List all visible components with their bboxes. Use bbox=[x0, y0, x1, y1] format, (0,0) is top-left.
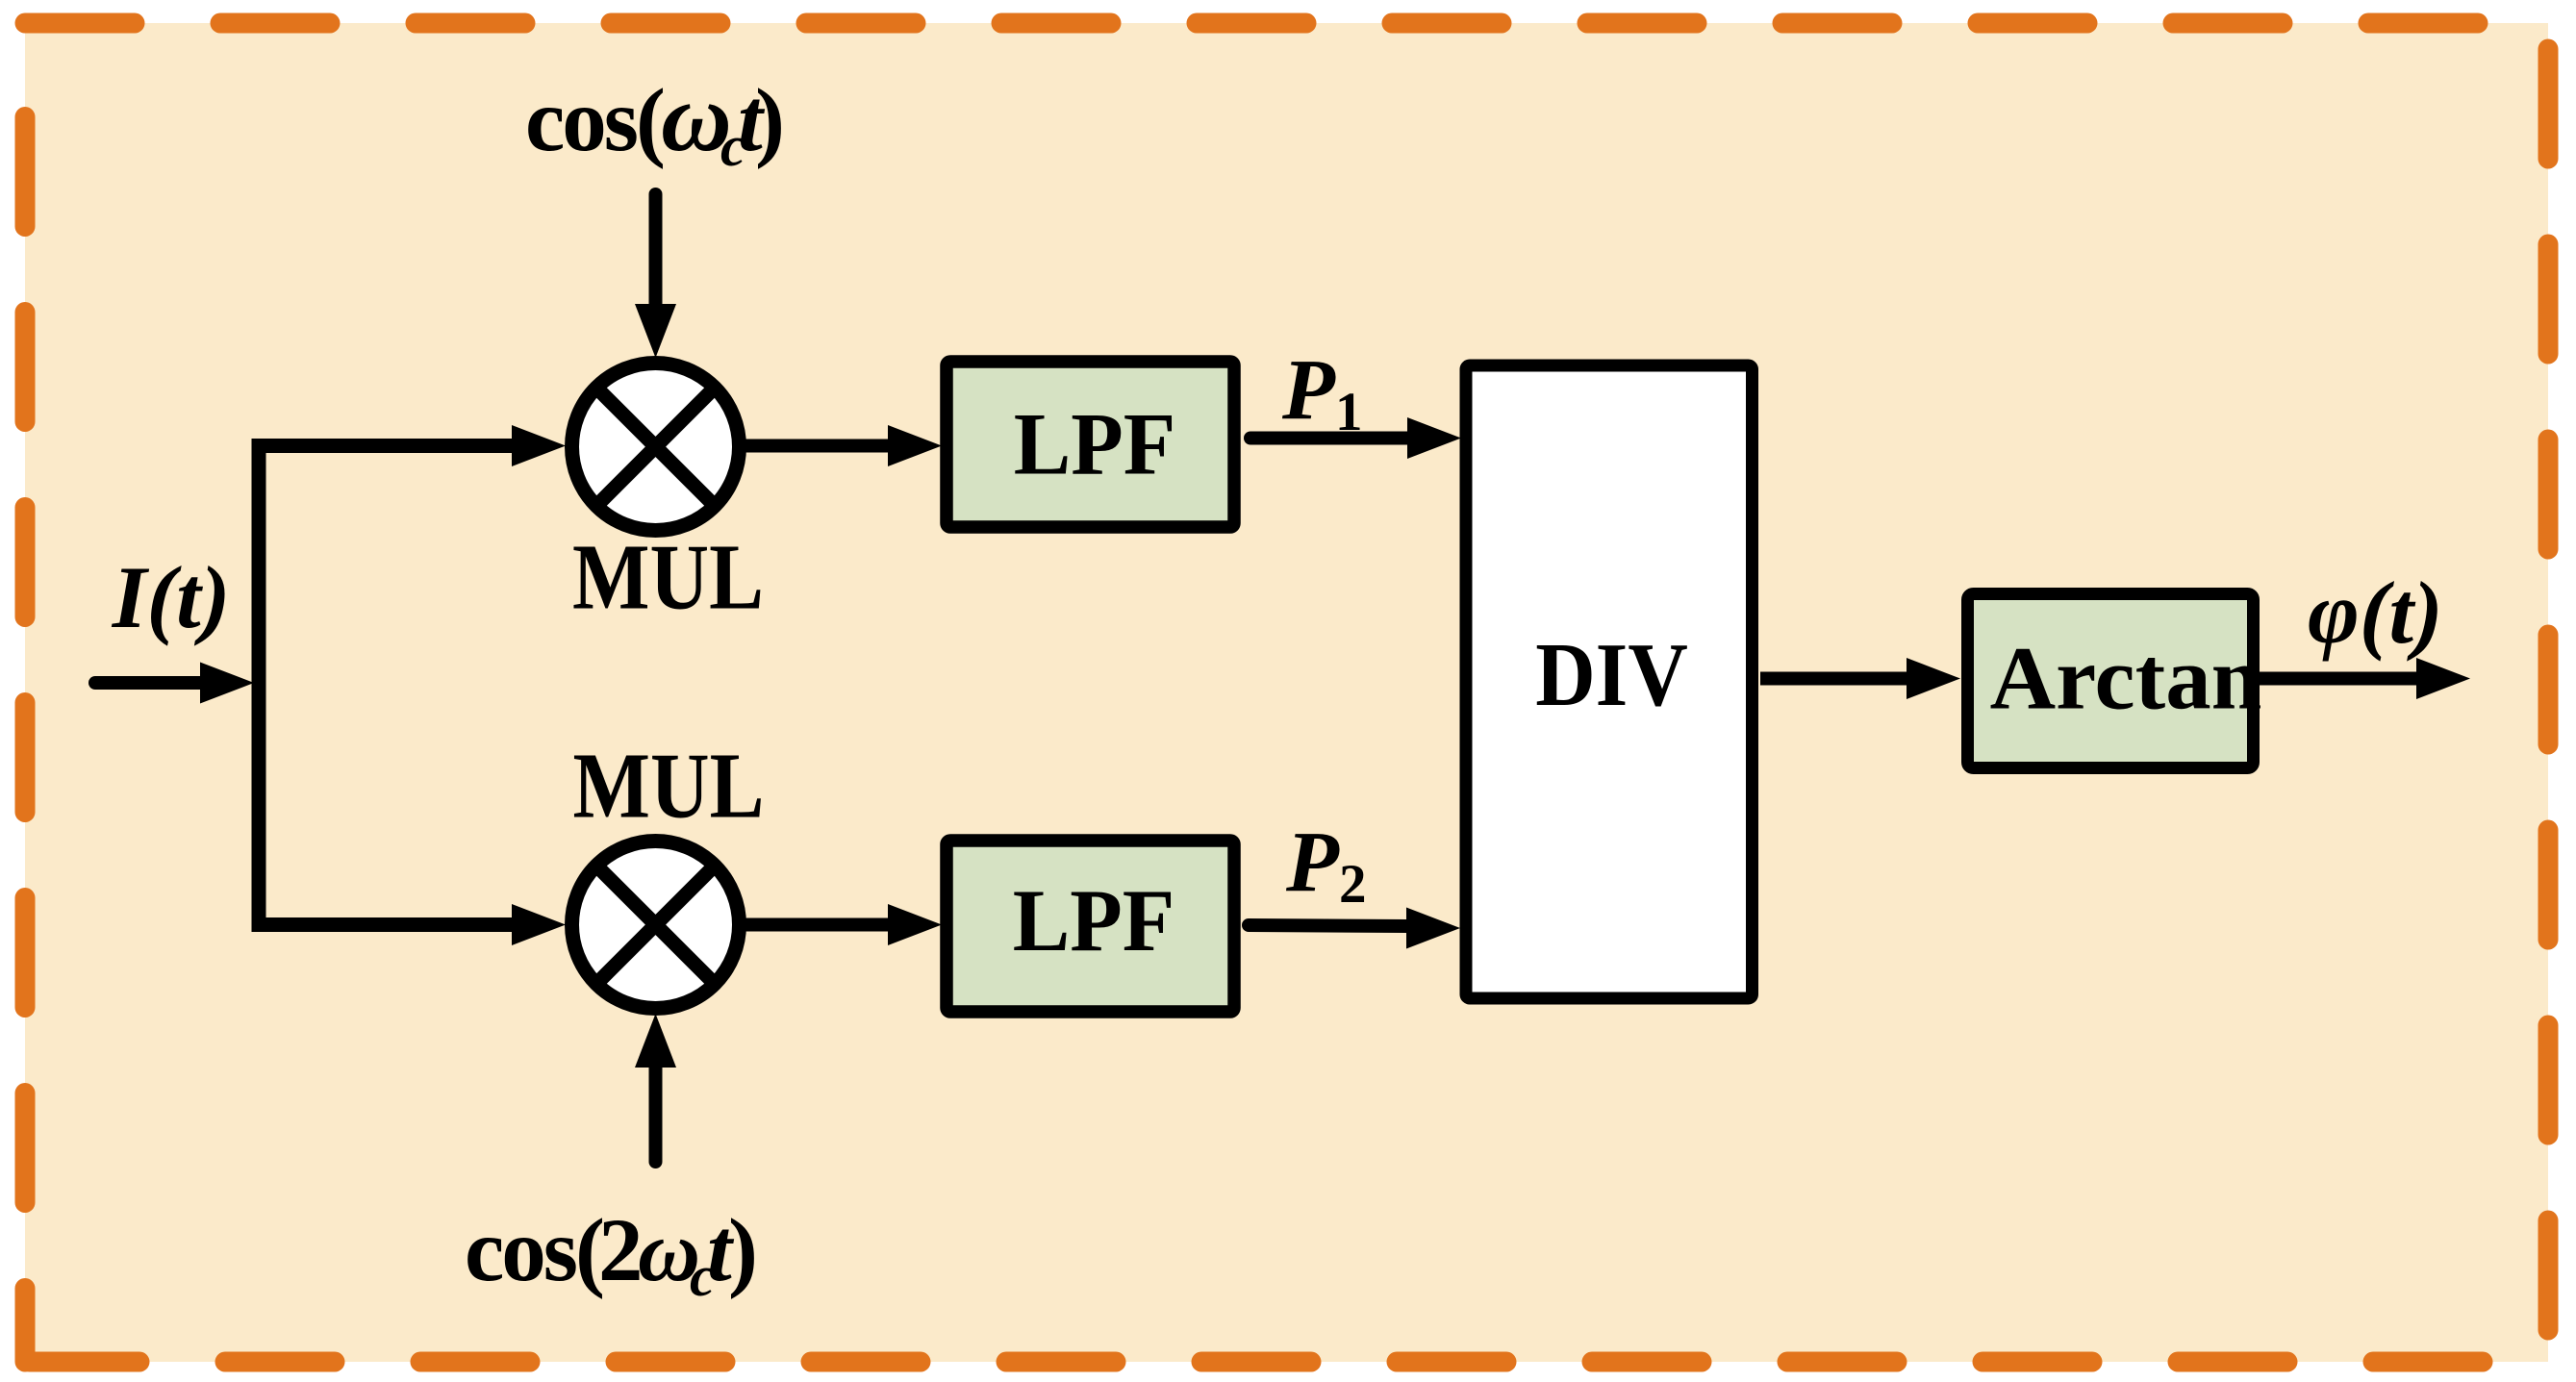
svg-text:LPF: LPF bbox=[1013, 871, 1175, 970]
wire MUL2 to LPF2 bbox=[745, 918, 891, 932]
arrowhead into LPF1 bbox=[888, 425, 942, 466]
multiplier MUL1 bbox=[572, 364, 740, 531]
dashed orange frame: left bbox=[15, 117, 36, 1363]
wire Arctan output bbox=[2260, 672, 2416, 686]
wire cos(wct) arrow down bbox=[649, 194, 663, 308]
arrowhead I(t) into trunk junction bbox=[200, 663, 254, 704]
dashed orange frame: right bbox=[2538, 23, 2559, 1362]
svg-text:cos(ωct): cos(ωct) bbox=[525, 63, 785, 178]
arrowhead into Arctan bbox=[1907, 658, 1960, 699]
wire P1: LPF1 to DIV bbox=[1250, 432, 1410, 445]
svg-text:LPF: LPF bbox=[1014, 394, 1176, 493]
svg-text:DIV: DIV bbox=[1535, 625, 1688, 725]
block LPF2 bbox=[947, 841, 1234, 1012]
dashed orange frame: bottom bbox=[25, 1352, 2548, 1372]
svg-text:Arctan: Arctan bbox=[1990, 630, 2262, 729]
arrowhead P1 into DIV bbox=[1407, 417, 1461, 459]
block Arctan bbox=[1968, 594, 2254, 768]
wire arrow into MUL1 bbox=[512, 425, 566, 466]
wire MUL1 to LPF1 bbox=[745, 440, 891, 453]
wire input I(t) bbox=[95, 676, 204, 690]
arrowhead cos(wct) into MUL1 bbox=[635, 304, 676, 358]
wire cos(2wct) arrow up bbox=[649, 1068, 663, 1162]
dashed orange frame: top bbox=[25, 13, 2548, 34]
arrowhead cos(2wct) into MUL2 bbox=[635, 1014, 676, 1068]
arrowhead phi(t) output bbox=[2416, 658, 2470, 699]
svg-text:I(t): I(t) bbox=[112, 548, 231, 646]
block DIV bbox=[1466, 365, 1753, 998]
svg-text:φ(t): φ(t) bbox=[2308, 564, 2443, 662]
svg-text:MUL: MUL bbox=[573, 733, 765, 838]
multiplier MUL2 bbox=[572, 842, 740, 1009]
wire trunk split bbox=[259, 446, 515, 925]
block LPF1 bbox=[947, 362, 1234, 527]
arrowhead P2 into DIV bbox=[1406, 908, 1460, 949]
wire DIV to Arctan bbox=[1760, 672, 1909, 686]
arrowhead into LPF2 bbox=[888, 904, 942, 945]
wire arrow into MUL2 bbox=[512, 904, 566, 945]
svg-text:MUL: MUL bbox=[572, 524, 764, 629]
wire P2: LPF2 to DIV bbox=[1249, 925, 1408, 926]
svg-text:cos(2ωct): cos(2ωct) bbox=[465, 1201, 758, 1308]
